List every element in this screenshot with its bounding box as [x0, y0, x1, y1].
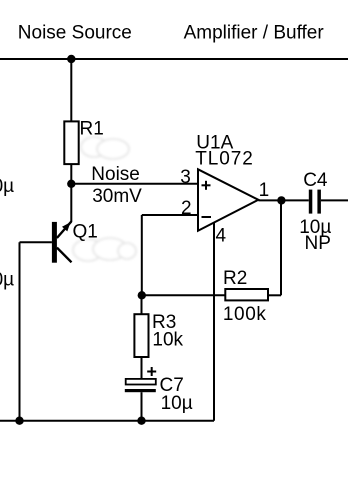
- svg-text:3: 3: [180, 167, 191, 188]
- svg-text:1: 1: [259, 180, 270, 201]
- svg-text:Noise Source: Noise Source: [18, 23, 132, 44]
- svg-text:10µ: 10µ: [0, 176, 14, 197]
- svg-text:TL072: TL072: [195, 148, 253, 169]
- svg-text:100k: 100k: [223, 304, 267, 325]
- svg-text:C4: C4: [303, 170, 328, 191]
- svg-text:10k: 10k: [152, 330, 183, 351]
- svg-text:2: 2: [181, 198, 192, 219]
- svg-text:30mV: 30mV: [92, 186, 142, 207]
- svg-text:4: 4: [216, 226, 227, 247]
- svg-text:Amplifier / Buffer: Amplifier / Buffer: [184, 23, 325, 44]
- svg-text:10µ: 10µ: [0, 270, 14, 291]
- svg-text:10µ: 10µ: [161, 393, 193, 414]
- svg-text:NP: NP: [305, 233, 331, 254]
- svg-text:R2: R2: [223, 268, 247, 289]
- svg-text:Q1: Q1: [73, 222, 98, 243]
- svg-text:R1: R1: [80, 118, 104, 139]
- svg-text:Noise: Noise: [91, 164, 140, 185]
